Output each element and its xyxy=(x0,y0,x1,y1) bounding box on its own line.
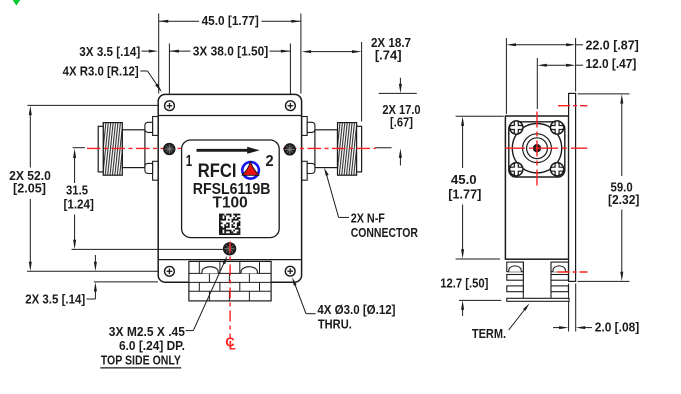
svg-text:[2.32]: [2.32] xyxy=(608,192,639,207)
svg-text:3X M2.5 X .45: 3X M2.5 X .45 xyxy=(109,324,185,339)
svg-text:[2.05]: [2.05] xyxy=(13,181,46,196)
svg-text:2X 3.5 [.14]: 2X 3.5 [.14] xyxy=(25,291,85,306)
svg-text:[1.77]: [1.77] xyxy=(448,186,481,201)
svg-text:L: L xyxy=(229,341,236,353)
svg-text:2: 2 xyxy=(266,153,274,170)
svg-text:TOP SIDE ONLY: TOP SIDE ONLY xyxy=(101,352,181,367)
svg-text:31.5: 31.5 xyxy=(66,183,88,198)
svg-text:RFCI: RFCI xyxy=(198,161,237,182)
svg-text:12.0 [.47]: 12.0 [.47] xyxy=(586,56,637,71)
svg-text:T100: T100 xyxy=(213,195,248,212)
svg-text:3X 38.0 [1.50]: 3X 38.0 [1.50] xyxy=(193,44,268,59)
svg-text:THRU.: THRU. xyxy=(318,316,352,331)
svg-text:CONNECTOR: CONNECTOR xyxy=(351,225,419,240)
svg-text:4X Ø3.0 [Ø.12]: 4X Ø3.0 [Ø.12] xyxy=(317,302,395,317)
svg-text:12.7 [.50]: 12.7 [.50] xyxy=(440,276,488,291)
svg-text:2.0 [.08]: 2.0 [.08] xyxy=(595,320,639,335)
svg-text:3X 3.5 [.14]: 3X 3.5 [.14] xyxy=(79,44,140,59)
svg-text:[1.24]: [1.24] xyxy=(63,197,94,212)
svg-text:[.67]: [.67] xyxy=(390,115,413,130)
svg-text:6.0 [.24] DP.: 6.0 [.24] DP. xyxy=(119,338,185,353)
svg-text:4X R3.0 [R.12]: 4X R3.0 [R.12] xyxy=(63,64,139,79)
svg-text:TERM.: TERM. xyxy=(472,326,506,341)
svg-text:1: 1 xyxy=(186,153,193,170)
svg-text:22.0 [.87]: 22.0 [.87] xyxy=(586,38,639,53)
svg-text:2X N-F: 2X N-F xyxy=(351,211,385,226)
svg-text:[.74]: [.74] xyxy=(375,47,402,62)
svg-text:45.0 [1.77]: 45.0 [1.77] xyxy=(202,13,259,28)
svg-text:45.0: 45.0 xyxy=(451,172,477,187)
